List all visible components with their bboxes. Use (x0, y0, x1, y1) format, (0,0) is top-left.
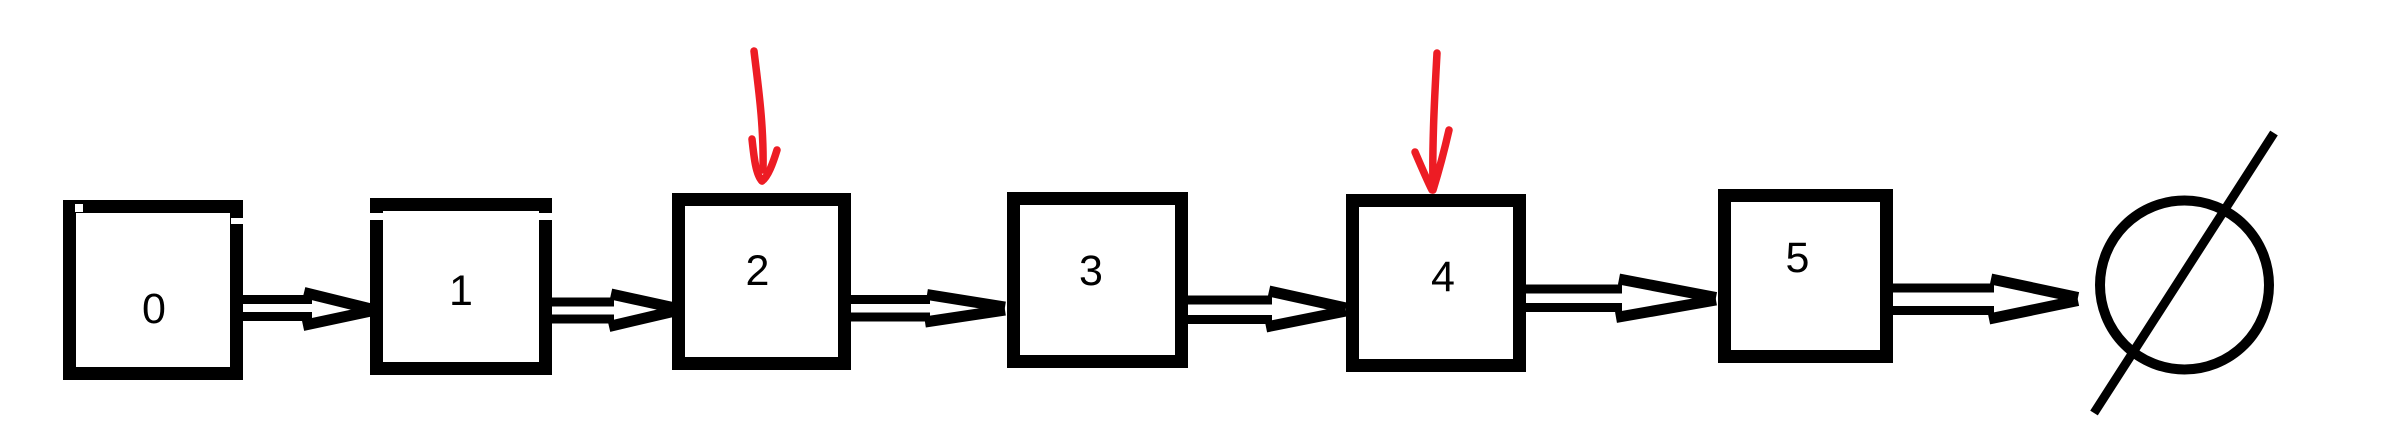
red pointer arrow above node 4 (1415, 53, 1449, 190)
arrow 2 to 3 (845, 295, 1005, 323)
node 1 box join gaps (370, 213, 552, 220)
svg-text:0: 0 (142, 285, 166, 333)
null terminator slash (2094, 133, 2274, 413)
node 0 box join gaps (75, 204, 243, 224)
arrow 1 to 2 (544, 294, 675, 327)
svg-text:4: 4 (1431, 253, 1455, 301)
arrow 0 to 1 (236, 293, 371, 326)
null terminator circle (2100, 201, 2269, 370)
arrow 5 to null (1887, 279, 2078, 319)
node 4 box (1353, 201, 1520, 366)
node 2 box (679, 200, 845, 364)
svg-text:3: 3 (1079, 247, 1103, 295)
red pointer arrow above node 2 (752, 51, 777, 181)
svg-text:1: 1 (449, 267, 473, 315)
node 0 box (70, 207, 237, 374)
node 3 box (1014, 199, 1182, 362)
svg-text:5: 5 (1786, 234, 1810, 282)
arrow 4 to 5 (1513, 279, 1716, 318)
node 1 box (377, 205, 546, 369)
arrow 3 to 4 (1183, 291, 1346, 327)
node 5 box (1725, 196, 1887, 357)
svg-text:2: 2 (746, 247, 770, 295)
